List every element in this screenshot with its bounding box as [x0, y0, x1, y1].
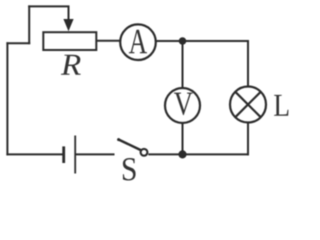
ammeter A: [120, 24, 156, 60]
wire voltmeter branch upper: [182, 41, 184, 88]
wire top junction to ammeter: [156, 40, 183, 42]
junction top node: [179, 37, 187, 45]
wire lamp branch lower: [247, 123, 249, 156]
voltmeter V: [165, 88, 200, 123]
label S: [123, 158, 136, 181]
wire switch to bottom junction: [148, 153, 182, 155]
label L: [274, 95, 288, 116]
battery: [64, 136, 75, 174]
wire vertical left-of-top: [28, 6, 30, 43]
lamp L: [230, 87, 266, 123]
junction bottom node: [178, 150, 186, 158]
wire top horizontal to wiper: [29, 5, 68, 7]
wire battery to switch: [76, 153, 115, 155]
wire top right: [183, 40, 250, 42]
label V: [174, 93, 193, 115]
wire left vertical: [6, 43, 8, 154]
rheostat R: [43, 32, 96, 50]
rheostat wiper arrow: [63, 6, 73, 31]
wire ammeter to rheostat: [96, 40, 121, 42]
wire bottom-left to battery: [7, 153, 62, 155]
wire bottom junction to lamp corner: [183, 153, 250, 155]
wire voltmeter branch lower: [182, 123, 184, 154]
wire horizontal jog: [7, 42, 29, 44]
switch S: [117, 138, 147, 156]
label R: [61, 55, 81, 75]
label A: [129, 30, 147, 53]
wire lamp branch upper: [247, 40, 249, 87]
